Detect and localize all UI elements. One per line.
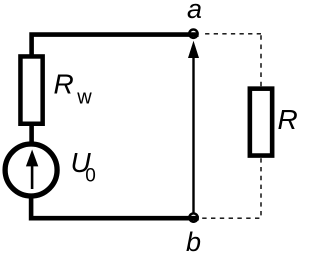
svg-text:R: R — [54, 69, 74, 100]
resistor R_w — [20, 56, 42, 123]
resistor R — [250, 89, 272, 156]
wire: dashed down to resistor R top — [260, 35, 262, 86]
node b — [189, 213, 197, 221]
svg-text:0: 0 — [85, 166, 96, 187]
wire: voltage arrow from b up to a — [192, 57, 194, 214]
svg-text:b: b — [186, 227, 201, 257]
wire: dashed from resistor R bottom to node b — [200, 158, 262, 218]
source arrow — [31, 163, 34, 189]
svg-text:R: R — [278, 104, 298, 135]
voltage source U0 — [5, 144, 57, 196]
svg-text:a: a — [187, 0, 202, 24]
wire: dashed from a right — [202, 33, 261, 35]
svg-text:w: w — [76, 87, 92, 109]
wire: resistor R_w bottom to source top — [29, 123, 34, 144]
wire: top wire from left corner through node a — [32, 35, 199, 56]
wire: source bottom to bottom-left corner through node b — [31, 196, 199, 218]
node a — [189, 30, 197, 38]
